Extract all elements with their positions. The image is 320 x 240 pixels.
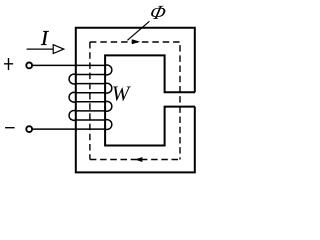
flux arrow top (rightward) (132, 39, 140, 44)
leader line from phi label (127, 21, 149, 40)
wire from minus terminal (32, 128, 105, 130)
wire from plus terminal (32, 64, 105, 66)
flux path right (dashed, through air gap) (179, 42, 181, 160)
flux path top (dashed) (90, 41, 180, 43)
flux path bottom (dashed) (90, 159, 180, 161)
plus terminal (26, 63, 32, 69)
minus sign (5, 127, 15, 129)
flux arrow bottom (leftward) (135, 157, 143, 162)
plus sign (4, 58, 13, 70)
svg-text:I: I (40, 26, 49, 50)
coil W winding (69, 65, 112, 129)
svg-text:W: W (112, 82, 132, 106)
flux path left (dashed) (89, 42, 91, 160)
minus terminal (26, 126, 32, 132)
svg-text:Φ: Φ (148, 2, 169, 24)
core inner window outline and air-gap pole faces (105, 55, 195, 145)
core outer outline (broken at air gap) (76, 28, 195, 173)
current arrow open head (53, 45, 64, 54)
current arrow line (27, 48, 54, 50)
